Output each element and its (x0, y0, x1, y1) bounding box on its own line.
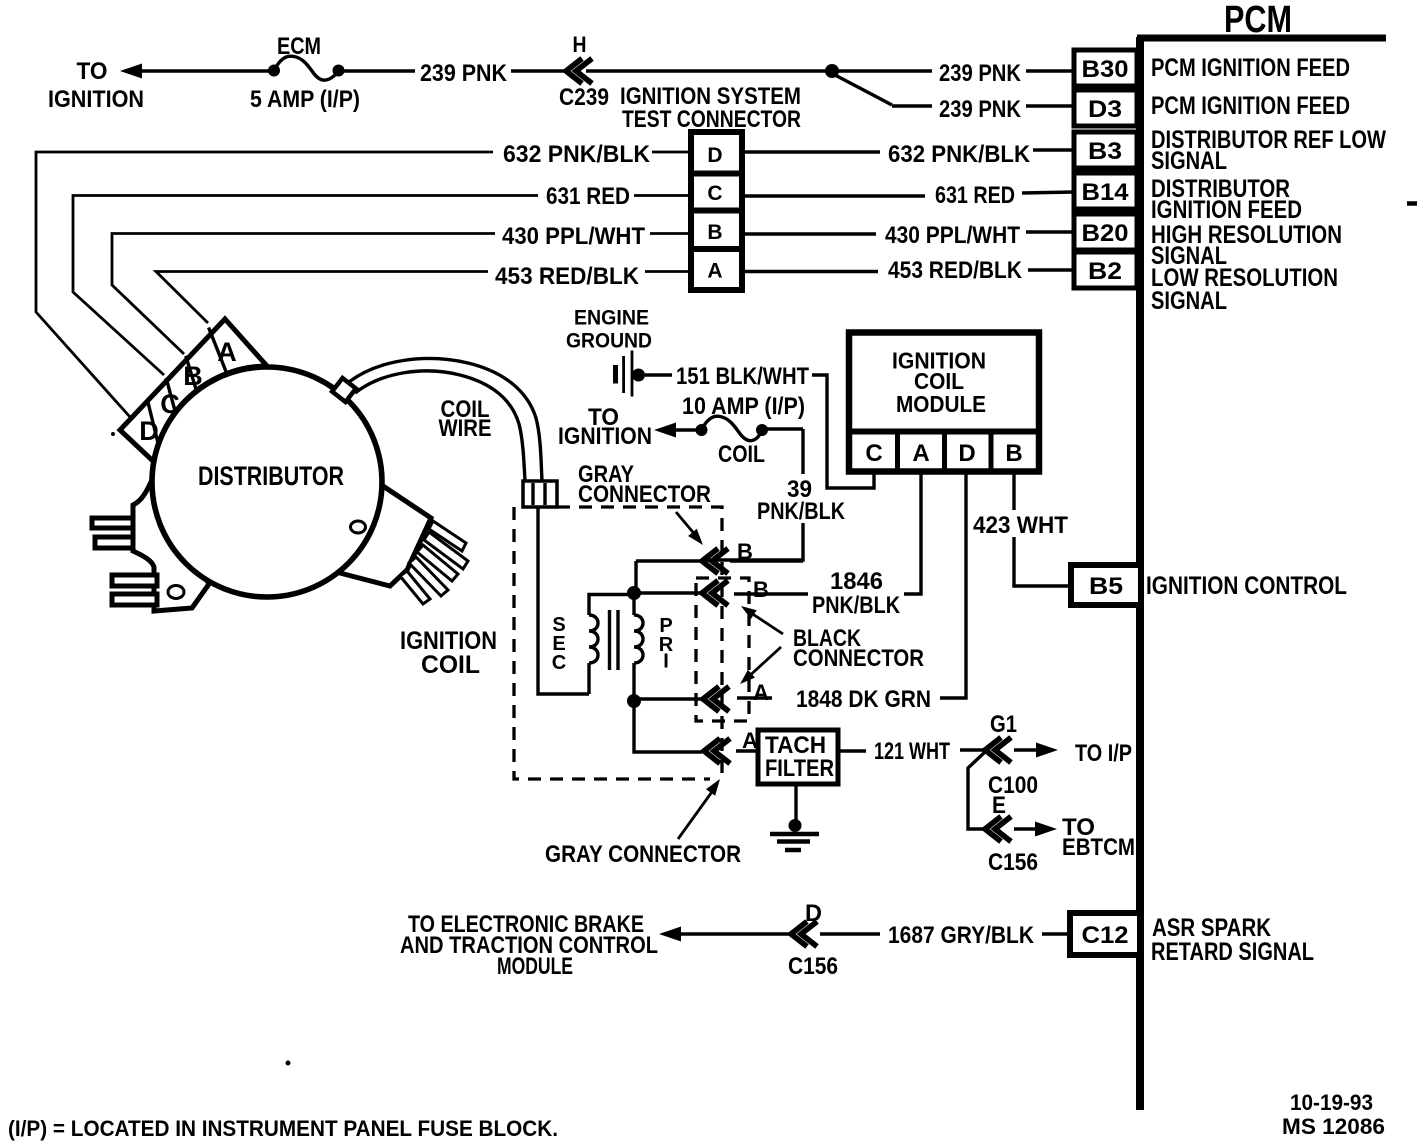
svg-text:B: B (737, 539, 753, 564)
svg-text:5 AMP (I/P): 5 AMP (I/P) (250, 86, 360, 113)
svg-text:B5: B5 (1089, 573, 1123, 600)
svg-text:ENGINE: ENGINE (574, 307, 649, 330)
svg-text:B: B (1005, 440, 1022, 467)
svg-text:WIRE: WIRE (439, 415, 492, 442)
svg-text:D: D (707, 144, 722, 167)
svg-text:DISTRIBUTOR: DISTRIBUTOR (198, 461, 344, 491)
svg-text:D: D (958, 440, 975, 467)
svg-text:C156: C156 (988, 849, 1038, 876)
svg-text:632 PNK/BLK: 632 PNK/BLK (503, 141, 651, 168)
svg-text:C: C (865, 440, 882, 467)
svg-text:EBTCM: EBTCM (1062, 834, 1135, 861)
svg-text:GROUND: GROUND (566, 330, 652, 353)
svg-text:C: C (552, 652, 566, 674)
svg-text:IGNITION FEED: IGNITION FEED (1151, 196, 1302, 224)
svg-text:B14: B14 (1082, 179, 1130, 206)
svg-text:COIL: COIL (421, 651, 480, 679)
svg-text:1848 DK GRN: 1848 DK GRN (796, 686, 931, 713)
svg-text:IGNITION CONTROL: IGNITION CONTROL (1146, 572, 1347, 600)
svg-text:IGNITION: IGNITION (48, 86, 144, 113)
svg-text:10-19-93: 10-19-93 (1290, 1090, 1373, 1115)
svg-text:423 WHT: 423 WHT (973, 512, 1068, 539)
svg-text:121 WHT: 121 WHT (874, 738, 950, 765)
svg-text:239 PNK: 239 PNK (939, 96, 1022, 123)
svg-text:GRAY CONNECTOR: GRAY CONNECTOR (545, 841, 741, 868)
svg-text:(I/P) = LOCATED IN INSTRUMENT: (I/P) = LOCATED IN INSTRUMENT PANEL FUSE… (8, 1116, 558, 1141)
svg-text:C156: C156 (788, 953, 838, 980)
svg-text:TEST CONNECTOR: TEST CONNECTOR (622, 106, 801, 133)
svg-text:D: D (805, 900, 822, 927)
svg-text:SIGNAL: SIGNAL (1151, 287, 1227, 315)
svg-text:632 PNK/BLK: 632 PNK/BLK (888, 141, 1031, 168)
svg-text:SIGNAL: SIGNAL (1151, 147, 1227, 175)
svg-text:PNK/BLK: PNK/BLK (812, 592, 901, 619)
svg-text:A: A (753, 680, 769, 705)
svg-text:PCM: PCM (1224, 0, 1292, 41)
svg-text:B3: B3 (1088, 138, 1122, 165)
svg-text:D3: D3 (1088, 96, 1122, 123)
svg-text:C12: C12 (1082, 922, 1129, 949)
svg-text:PCM IGNITION FEED: PCM IGNITION FEED (1151, 92, 1350, 120)
svg-text:453 RED/BLK: 453 RED/BLK (495, 263, 640, 290)
svg-text:1687 GRY/BLK: 1687 GRY/BLK (888, 922, 1035, 949)
svg-text:151 BLK/WHT: 151 BLK/WHT (676, 363, 809, 390)
svg-text:E: E (992, 792, 1006, 819)
svg-text:C: C (160, 389, 180, 419)
svg-text:A: A (912, 440, 929, 467)
svg-text:631 RED: 631 RED (935, 182, 1015, 209)
svg-text:IGNITION: IGNITION (558, 423, 652, 450)
svg-text:MODULE: MODULE (497, 953, 573, 980)
svg-text:C239: C239 (559, 84, 609, 111)
svg-text:D: D (139, 416, 159, 446)
svg-text:B: B (183, 361, 203, 391)
svg-text:430 PPL/WHT: 430 PPL/WHT (885, 222, 1020, 249)
svg-text:H: H (573, 32, 587, 57)
svg-text:FILTER: FILTER (765, 755, 834, 782)
svg-text:TO: TO (77, 58, 108, 85)
svg-text:B: B (707, 221, 722, 244)
svg-text:CONNECTOR: CONNECTOR (578, 481, 711, 508)
svg-text:1846: 1846 (830, 568, 883, 595)
svg-text:631 RED: 631 RED (546, 183, 630, 210)
svg-text:B2: B2 (1088, 258, 1122, 285)
svg-text:430 PPL/WHT: 430 PPL/WHT (502, 223, 645, 250)
svg-text:B20: B20 (1082, 220, 1129, 247)
svg-text:CONNECTOR: CONNECTOR (793, 645, 924, 672)
svg-text:10 AMP (I/P): 10 AMP (I/P) (682, 393, 805, 420)
svg-text:B30: B30 (1082, 56, 1129, 83)
svg-text:239 PNK: 239 PNK (420, 60, 508, 87)
svg-text:B: B (753, 577, 769, 602)
svg-text:C: C (707, 182, 722, 205)
svg-text:MS 12086: MS 12086 (1282, 1114, 1385, 1139)
svg-text:239 PNK: 239 PNK (939, 60, 1022, 87)
svg-text:MODULE: MODULE (896, 391, 986, 417)
svg-text:PCM IGNITION FEED: PCM IGNITION FEED (1151, 54, 1350, 82)
svg-text:PNK/BLK: PNK/BLK (757, 498, 846, 525)
svg-text:ECM: ECM (277, 33, 321, 60)
svg-text:COIL: COIL (718, 441, 765, 468)
svg-text:A: A (217, 337, 237, 367)
svg-text:RETARD SIGNAL: RETARD SIGNAL (1151, 938, 1314, 966)
svg-text:TO I/P: TO I/P (1075, 740, 1132, 767)
svg-text:A: A (707, 260, 722, 283)
svg-text:G1: G1 (990, 711, 1017, 738)
svg-text:I: I (663, 651, 669, 673)
svg-text:453 RED/BLK: 453 RED/BLK (888, 257, 1023, 284)
